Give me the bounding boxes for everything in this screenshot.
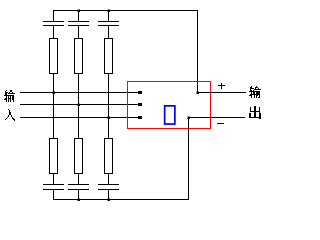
node junction input line 3 x branch 3 [107, 116, 110, 119]
label output text 输 [249, 86, 261, 98]
wire branch 2 vertical through the three input lines [78, 74, 80, 140]
node top-bus junction at branch 2 [77, 9, 80, 12]
node input terminal pin 2 inside rectifier box [138, 103, 142, 106]
label output text 出 [249, 106, 261, 119]
wire input phase line 3 [20, 117, 140, 119]
resistor R4 (bottom, branch 1) [50, 139, 58, 174]
wire input phase line 2 [20, 104, 140, 106]
capacitor C3 (top, branch 3) [98, 10, 119, 39]
label + polarity mark [218, 83, 225, 89]
resistor R5 (bottom, branch 2) [75, 139, 83, 174]
node + output junction [196, 91, 199, 94]
wire top bus (top rail connecting C1,C2,C3 to rectifier + side) [53, 10, 198, 12]
wire branch 3 vertical through the three input lines [108, 74, 110, 140]
wire right vertical from - output node down to bottom bus [188, 117, 190, 200]
node - output junction [187, 116, 190, 119]
label input text 入 [5, 109, 15, 121]
capacitor C2 (top, branch 2) [68, 10, 89, 39]
label - polarity mark [217, 123, 224, 125]
node junction input line 1 x branch 1 [52, 91, 55, 94]
resistor R6 (bottom, branch 3) [105, 139, 113, 174]
node bottom-bus junction at branch 2 [77, 198, 80, 201]
node junction input line 2 x branch 2 [77, 103, 80, 106]
wire right vertical from top bus down into rectifier box [197, 10, 199, 93]
rectifier internal element (blue rectangle) [165, 106, 175, 124]
capacitor C6 (bottom, branch 3) [98, 174, 119, 201]
resistor R3 (top, branch 3) [105, 39, 113, 74]
wire - output lead [189, 117, 246, 119]
wire branch 1 vertical through the three input lines [53, 74, 55, 140]
node bottom-bus junction at branch 3 [107, 198, 110, 201]
rectifier unit U1 (red outline box) [128, 82, 211, 129]
capacitor C5 (bottom, branch 2) [68, 174, 89, 201]
wire + output lead [198, 92, 247, 94]
label input text 输 [4, 90, 15, 102]
wire bottom bus (bottom rail connecting C4,C5,C6 to rectifier - side) [53, 199, 189, 201]
wire input phase line 1 [20, 92, 140, 94]
capacitor C4 (bottom, branch 1) [43, 174, 64, 201]
node top-bus junction at branch 3 [107, 9, 110, 12]
node input terminal pin 3 inside rectifier box [138, 116, 142, 119]
node input terminal pin 1 inside rectifier box [138, 91, 142, 94]
resistor R1 (top, branch 1) [50, 39, 58, 74]
resistor R2 (top, branch 2) [75, 39, 83, 74]
capacitor C1 (top, branch 1) [43, 10, 64, 39]
